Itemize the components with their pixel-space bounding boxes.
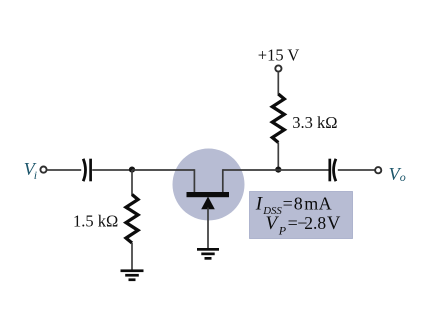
- wire: [92, 169, 132, 171]
- terminal +15V: [275, 65, 281, 71]
- wire: [132, 169, 194, 171]
- ground: [121, 269, 144, 281]
- resistor R2: [272, 94, 284, 143]
- label VP = -2.8 V: [266, 213, 342, 237]
- annotation box device parameters: [250, 192, 353, 239]
- svg-text:1.5 kΩ: 1.5 kΩ: [73, 211, 118, 230]
- svg-text:m: m: [304, 194, 318, 214]
- ground: [197, 248, 219, 260]
- wire: [223, 169, 278, 171]
- terminal Vi: [40, 167, 46, 173]
- wire: [277, 72, 279, 95]
- label IDSS = 8 mA: [255, 194, 332, 218]
- svg-text:A: A: [319, 194, 332, 214]
- svg-text:+15 V: +15 V: [258, 45, 300, 64]
- svg-text:=: =: [283, 194, 293, 214]
- capacitor C2: [330, 159, 336, 182]
- svg-text:V: V: [327, 214, 341, 234]
- wire: [131, 243, 133, 270]
- capacitor C1: [83, 159, 90, 182]
- svg-text:2.8: 2.8: [304, 213, 326, 233]
- terminal Vo: [375, 167, 381, 173]
- wire: [277, 143, 279, 171]
- svg-text:3.3 kΩ: 3.3 kΩ: [292, 113, 337, 132]
- wire: [278, 169, 329, 171]
- wire: [207, 208, 209, 249]
- node drain junction: [275, 167, 281, 173]
- node Vi label: [24, 159, 37, 182]
- resistor R1: [126, 195, 138, 244]
- wire: [338, 169, 375, 171]
- node gate junction: [129, 167, 135, 173]
- svg-text:o: o: [400, 170, 406, 184]
- wire: [47, 169, 81, 171]
- svg-text:P: P: [278, 223, 287, 237]
- transistor Q1: [173, 149, 245, 221]
- svg-text:8: 8: [294, 194, 303, 214]
- svg-text:i: i: [34, 168, 37, 182]
- node Vo label: [389, 164, 406, 184]
- wire: [131, 170, 133, 195]
